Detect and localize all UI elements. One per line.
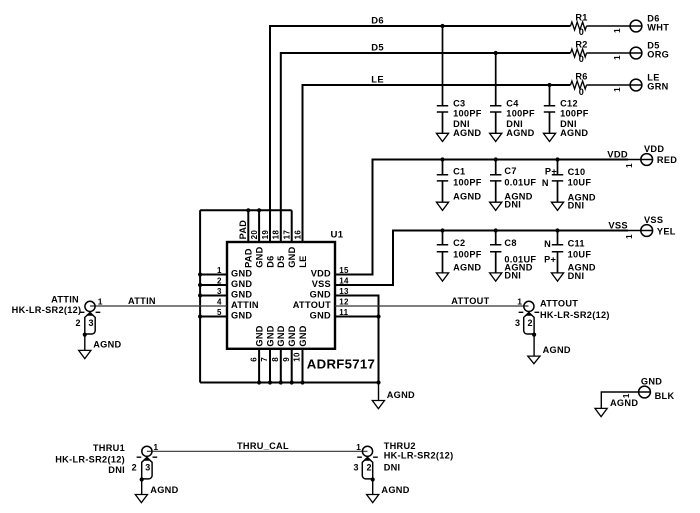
svg-text:THRU1: THRU1 <box>93 443 125 453</box>
connector THRU2 HK-LR-SR2(12) DNI <box>354 441 454 495</box>
svg-text:N: N <box>542 178 549 188</box>
wire pin 17 to top bus <box>291 210 293 242</box>
svg-text:ATTIN: ATTIN <box>231 300 259 310</box>
U1 right pin names <box>293 268 331 320</box>
svg-text:18: 18 <box>272 230 281 240</box>
net label VSS <box>608 220 628 231</box>
junction VDD/C1 <box>440 157 444 161</box>
svg-text:ATTIN: ATTIN <box>128 296 156 306</box>
op-amp U1 ADRF5717 IC body <box>227 242 335 349</box>
svg-text:GND: GND <box>641 376 662 386</box>
svg-text:N: N <box>544 239 551 249</box>
svg-text:3: 3 <box>89 318 94 328</box>
svg-text:GND: GND <box>255 325 265 346</box>
wire net VSS: pin 14 riser and rail <box>335 231 628 286</box>
svg-text:ATTOUT: ATTOUT <box>451 296 489 306</box>
svg-text:10UF: 10UF <box>568 177 592 187</box>
svg-text:100PF: 100PF <box>453 177 482 187</box>
capacitor C1 100PF <box>436 160 481 211</box>
svg-text:HK-LR-SR2(12): HK-LR-SR2(12) <box>12 305 82 315</box>
wire pin PAD to top bus <box>247 210 249 242</box>
connector D5 ORG <box>613 40 669 60</box>
junction D6/C3 <box>440 24 444 28</box>
svg-text:C8: C8 <box>504 238 516 248</box>
svg-text:3: 3 <box>145 463 150 473</box>
svg-text:1: 1 <box>613 55 622 60</box>
svg-text:AGND: AGND <box>610 398 638 408</box>
svg-text:1: 1 <box>613 28 622 33</box>
svg-text:ATTOUT: ATTOUT <box>293 300 331 310</box>
capacitor C10 10UF polarized <box>542 160 596 211</box>
svg-text:AGND: AGND <box>453 128 481 138</box>
svg-text:100PF: 100PF <box>560 109 589 119</box>
capacitor C12 100PF <box>543 85 588 142</box>
svg-text:GND: GND <box>310 310 331 320</box>
svg-text:1: 1 <box>517 296 522 306</box>
resistor R2 <box>571 39 642 63</box>
svg-text:AGND: AGND <box>93 339 121 349</box>
svg-text:9: 9 <box>282 357 291 362</box>
svg-text:C11: C11 <box>568 238 585 248</box>
svg-text:GRN: GRN <box>647 81 668 91</box>
junction LE/C12 <box>547 83 551 87</box>
svg-text:AGND: AGND <box>506 128 534 138</box>
resistor R6 <box>571 71 642 96</box>
ground AGND below U1 <box>372 390 415 409</box>
junction VDD/C10 <box>555 157 559 161</box>
svg-text:YEL: YEL <box>657 227 676 237</box>
wire pin 11 GND <box>335 316 379 318</box>
svg-text:ATTIN: ATTIN <box>51 294 79 304</box>
wire net ATTOUT <box>335 305 529 307</box>
svg-text:THRU_CAL: THRU_CAL <box>237 441 289 451</box>
svg-text:6: 6 <box>249 357 258 362</box>
svg-text:C2: C2 <box>453 238 465 248</box>
wire top GND bus to pins PAD,20,17 <box>200 209 292 211</box>
connector THRU1 HK-LR-SR2(12) DNI <box>55 442 158 494</box>
svg-text:DNI: DNI <box>504 270 521 280</box>
resistor R1 <box>571 12 642 36</box>
svg-text:2: 2 <box>528 318 533 328</box>
svg-text:20: 20 <box>250 230 259 240</box>
junction VSS/C2 <box>440 228 444 232</box>
junction at PAD/top bus <box>246 208 250 212</box>
wires pins 1,2,3,5 to left bus with junctions <box>198 272 227 318</box>
svg-text:RED: RED <box>657 155 677 165</box>
svg-text:1: 1 <box>356 442 361 452</box>
svg-text:C4: C4 <box>506 99 519 109</box>
connector VDD RED <box>625 144 677 168</box>
svg-text:PAD: PAD <box>238 220 248 240</box>
net label D6 <box>371 15 384 26</box>
wire left GND bus vertical <box>199 210 201 382</box>
junction D5/C4 <box>494 51 498 55</box>
wire bus to AGND symbol <box>378 383 380 401</box>
svg-text:AGND: AGND <box>150 485 178 495</box>
svg-text:ORG: ORG <box>647 49 669 59</box>
svg-text:D6: D6 <box>265 255 275 267</box>
svg-text:1: 1 <box>625 163 634 168</box>
svg-text:WHT: WHT <box>647 22 669 32</box>
wire net VDD: pin 15 riser and rail <box>335 160 628 275</box>
svg-text:100PF: 100PF <box>453 109 482 119</box>
svg-text:VDD: VDD <box>644 144 664 154</box>
svg-text:GND: GND <box>298 325 308 346</box>
capacitor C2 100PF <box>436 231 481 282</box>
connector ATTIN HK-LR-SR2(12) <box>12 294 103 350</box>
svg-text:U1: U1 <box>331 229 344 240</box>
svg-text:10: 10 <box>293 352 302 362</box>
svg-text:C10: C10 <box>568 167 586 177</box>
svg-text:DNI: DNI <box>568 200 585 210</box>
wire bottom GND bus <box>200 382 378 384</box>
junction VDD/C7 <box>494 157 498 161</box>
svg-text:AGND: AGND <box>560 128 588 138</box>
svg-text:1: 1 <box>98 296 103 306</box>
junction bottom bus / AGND drop <box>376 380 380 384</box>
junction VSS/C8 <box>494 228 498 232</box>
wire net THRU_CAL <box>147 450 368 452</box>
svg-text:D5: D5 <box>276 255 286 267</box>
svg-text:VDD: VDD <box>311 268 331 278</box>
net label THRU_CAL <box>237 441 289 451</box>
svg-text:ATTOUT: ATTOUT <box>540 298 578 308</box>
wire net D5 from pin 18 <box>281 53 571 242</box>
net label LE <box>371 74 384 85</box>
svg-text:8: 8 <box>271 357 280 362</box>
svg-text:2: 2 <box>75 318 80 328</box>
wire VSS rail thin end to connector <box>628 230 653 232</box>
svg-text:GND: GND <box>276 325 286 346</box>
junction at pin20/top bus <box>257 208 261 212</box>
connector LE GRN <box>613 72 669 92</box>
svg-text:HK-LR-SR2(12): HK-LR-SR2(12) <box>384 451 454 461</box>
net label ATTOUT <box>451 296 489 306</box>
svg-text:12: 12 <box>339 298 349 307</box>
svg-text:R2: R2 <box>575 39 587 49</box>
svg-text:LE: LE <box>298 255 308 267</box>
svg-text:16: 16 <box>293 230 302 240</box>
svg-text:1: 1 <box>625 234 634 239</box>
wire net D6 from pin 19 <box>270 26 571 242</box>
svg-text:R1: R1 <box>575 12 587 22</box>
svg-text:GND: GND <box>265 325 275 346</box>
connector ATTOUT HK-LR-SR2(12) <box>515 296 610 356</box>
ground AGND for THRU1 <box>135 485 178 503</box>
net label ATTIN <box>128 296 156 306</box>
ground AGND for ATTIN <box>79 339 122 358</box>
svg-text:17: 17 <box>283 230 292 240</box>
svg-text:2: 2 <box>132 463 137 473</box>
svg-text:HK-LR-SR2(12): HK-LR-SR2(12) <box>540 310 610 320</box>
U1 left pin numbers 1-5 <box>217 266 222 317</box>
svg-text:100PF: 100PF <box>453 250 482 260</box>
svg-text:4: 4 <box>217 298 222 307</box>
svg-text:GND: GND <box>231 310 252 320</box>
connector VSS YEL <box>625 215 676 239</box>
svg-text:GND: GND <box>231 289 252 299</box>
wire pin 20 to top bus <box>258 210 260 242</box>
svg-text:C3: C3 <box>453 99 465 109</box>
svg-text:1: 1 <box>613 87 622 92</box>
svg-text:AGND: AGND <box>543 345 571 355</box>
svg-text:GND: GND <box>287 246 297 267</box>
svg-text:LE: LE <box>371 74 384 85</box>
svg-text:19: 19 <box>261 230 270 240</box>
svg-text:10UF: 10UF <box>568 250 592 260</box>
svg-text:R6: R6 <box>575 71 587 81</box>
svg-text:AGND: AGND <box>381 485 409 495</box>
svg-text:BLK: BLK <box>655 391 675 401</box>
capacitor C11 10UF polarized <box>544 231 596 282</box>
svg-text:C1: C1 <box>453 166 465 176</box>
capacitor C4 100PF <box>490 53 535 142</box>
svg-text:0: 0 <box>579 87 584 97</box>
svg-text:DNI: DNI <box>568 271 585 281</box>
svg-text:THRU2: THRU2 <box>384 441 416 451</box>
connector D6 WHT <box>613 13 669 33</box>
svg-text:0: 0 <box>579 54 584 64</box>
svg-text:C7: C7 <box>504 166 516 176</box>
svg-text:GND: GND <box>310 289 331 299</box>
svg-text:AGND: AGND <box>453 262 481 272</box>
svg-text:P+: P+ <box>544 255 556 265</box>
svg-text:3: 3 <box>515 318 520 328</box>
net label VDD <box>607 149 628 160</box>
svg-text:1: 1 <box>153 442 158 452</box>
U1 part value ADRF5717 <box>307 357 375 372</box>
U1 right pin numbers 15-11 <box>339 266 349 317</box>
svg-text:VSS: VSS <box>644 215 663 225</box>
svg-text:DNI: DNI <box>504 200 521 210</box>
svg-text:2: 2 <box>367 463 372 473</box>
wire VDD rail thin end to connector <box>628 159 653 161</box>
wire pin 13 GND to AGND drop <box>335 296 379 383</box>
capacitor C8 0.01UF <box>490 231 537 282</box>
svg-text:7: 7 <box>260 357 269 362</box>
svg-text:100PF: 100PF <box>506 109 535 119</box>
svg-text:P+: P+ <box>545 167 557 177</box>
svg-text:AGND: AGND <box>453 192 481 202</box>
U1 bottom pin numbers 6-10 (rotated) <box>249 352 301 362</box>
ground AGND for ATTOUT <box>528 345 571 364</box>
connector GND BLK <box>601 376 674 408</box>
svg-text:VSS: VSS <box>608 220 628 231</box>
U1 top pin numbers PAD,20-16 (rotated) <box>238 220 302 240</box>
svg-text:GND: GND <box>255 246 265 267</box>
svg-text:VDD: VDD <box>607 149 628 160</box>
U1 left pin names <box>231 268 259 320</box>
capacitor C7 0.01UF <box>490 160 537 211</box>
svg-text:DNI: DNI <box>384 463 401 473</box>
svg-text:PAD: PAD <box>244 248 254 268</box>
svg-text:3: 3 <box>354 463 359 473</box>
junction VSS/C11 <box>555 228 559 232</box>
svg-text:D6: D6 <box>371 15 384 26</box>
net label D5 <box>371 42 384 53</box>
wire net ATTIN <box>90 305 227 307</box>
U1 bottom pin names (rotated) <box>255 325 308 346</box>
svg-text:0.01UF: 0.01UF <box>504 178 536 188</box>
svg-text:GND: GND <box>231 279 252 289</box>
ground AGND for THRU2 <box>367 485 410 503</box>
svg-text:GND: GND <box>287 325 297 346</box>
wires bottom pins 6-10 to bottom bus with junctions <box>257 349 305 385</box>
svg-text:D5: D5 <box>371 42 384 53</box>
svg-text:C12: C12 <box>560 99 578 109</box>
U1 top pin names (rotated) <box>244 246 308 267</box>
junction pin11/pin13 drop <box>376 314 380 318</box>
svg-text:0: 0 <box>579 27 584 37</box>
capacitor C3 100PF <box>436 26 481 142</box>
wire net LE from pin 16 <box>303 85 571 242</box>
svg-text:DNI: DNI <box>108 465 125 475</box>
svg-text:GND: GND <box>231 268 252 278</box>
ground AGND for GND connector <box>595 398 638 417</box>
U1 reference designator <box>331 229 344 240</box>
svg-text:VSS: VSS <box>312 279 331 289</box>
svg-text:HK-LR-SR2(12): HK-LR-SR2(12) <box>55 454 125 464</box>
svg-text:AGND: AGND <box>387 390 415 400</box>
svg-text:ADRF5717: ADRF5717 <box>307 357 375 372</box>
